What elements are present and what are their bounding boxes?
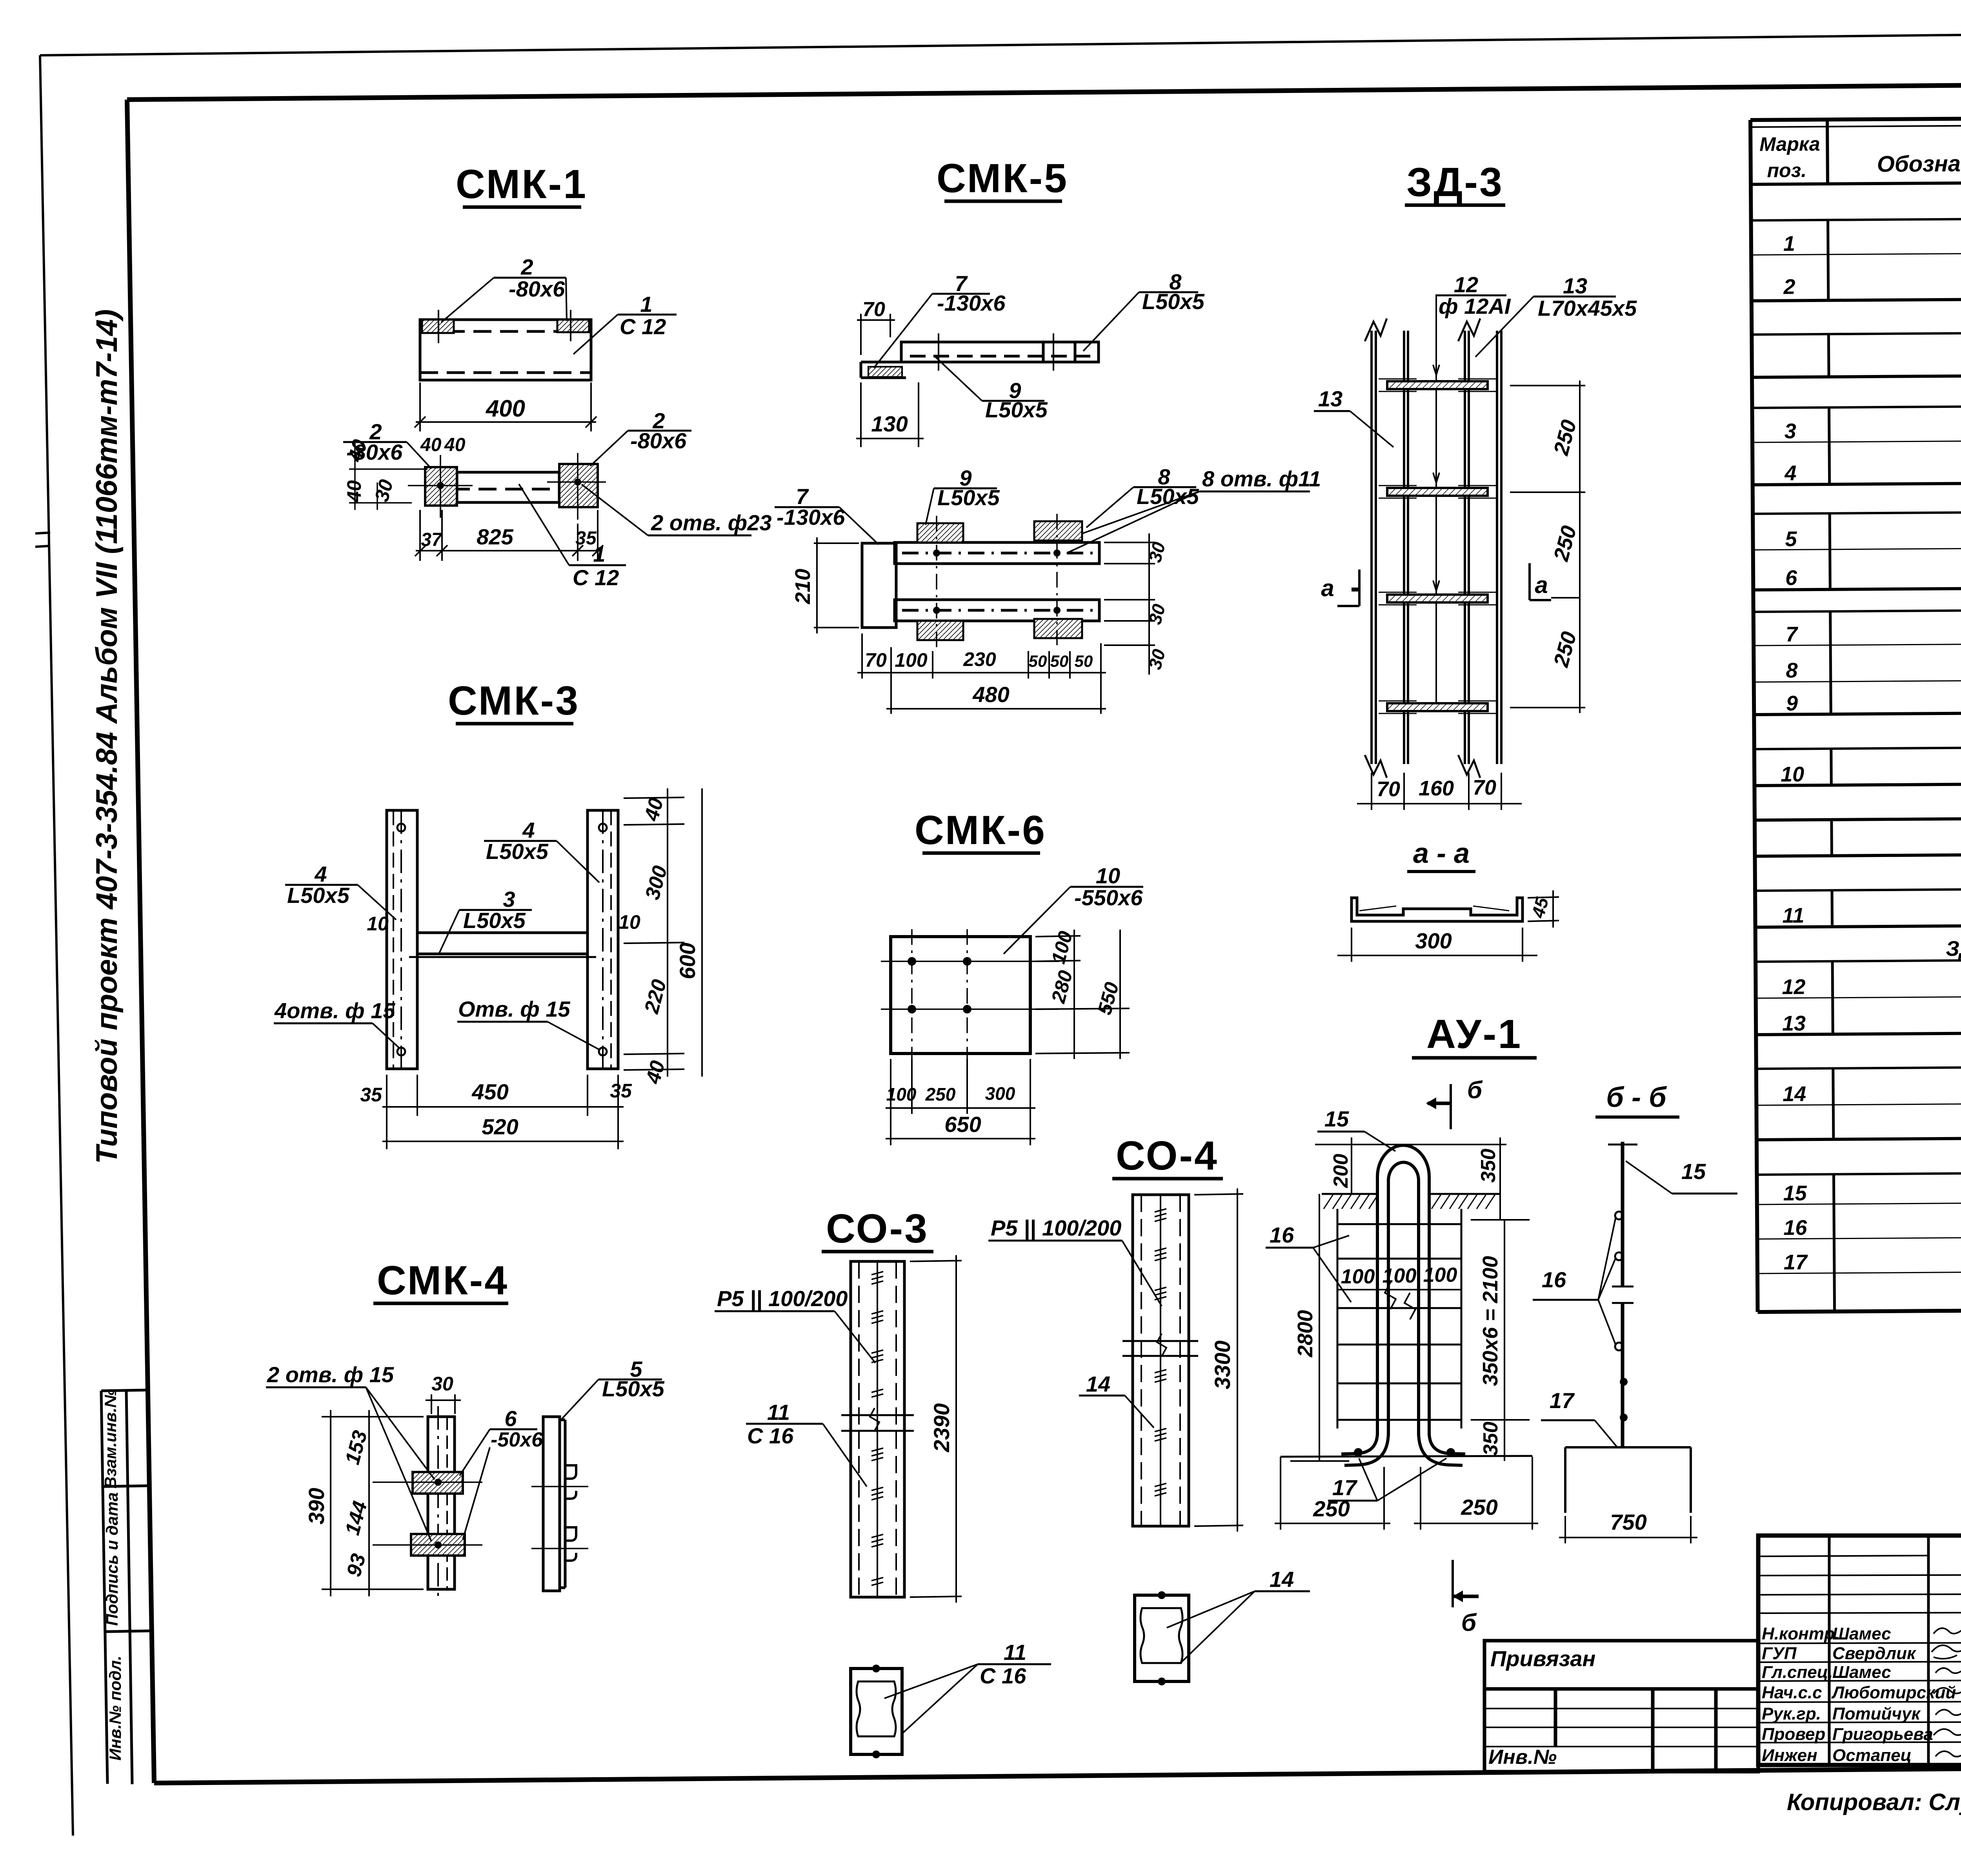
svg-text:Подпись и дата: Подпись и дата bbox=[103, 1492, 121, 1626]
left bottom attribute strip bbox=[101, 1390, 151, 1784]
svg-text:3300: 3300 bbox=[1210, 1341, 1235, 1390]
СМК-3 left angle post bbox=[387, 810, 417, 1069]
svg-text:Григорьева: Григорьева bbox=[1832, 1725, 1933, 1744]
svg-text:СМК-5: СМК-5 bbox=[937, 156, 1068, 201]
signature rows bbox=[1758, 1556, 1961, 1743]
rebar cross ticks bbox=[1155, 1209, 1166, 1496]
svg-text:1: 1 bbox=[1783, 232, 1795, 255]
column verticals through data bands bbox=[1828, 216, 1961, 1312]
dim 300 (а-а) bbox=[1337, 928, 1537, 962]
gusset plates 80x6 on top view bbox=[422, 320, 454, 333]
svg-text:2390: 2390 bbox=[929, 1403, 954, 1453]
signature columns bbox=[1829, 1536, 1961, 1765]
svg-text:230: 230 bbox=[963, 648, 996, 670]
rung end welds bbox=[1379, 379, 1496, 713]
СО-3 cross section bbox=[851, 1669, 902, 1754]
break mark bbox=[1122, 1334, 1198, 1356]
svg-text:поз.: поз. bbox=[1767, 159, 1806, 182]
svg-text:300: 300 bbox=[1415, 928, 1452, 953]
bottom dims 100 250 300 bbox=[886, 1059, 1035, 1145]
rebar cross ticks bbox=[871, 1272, 883, 1585]
svg-text:4: 4 bbox=[1784, 461, 1796, 485]
svg-text:10: 10 bbox=[1096, 863, 1120, 888]
svg-text:16: 16 bbox=[1783, 1216, 1807, 1239]
svg-text:14: 14 bbox=[1783, 1082, 1806, 1106]
svg-text:Провер: Провер bbox=[1762, 1725, 1825, 1744]
svg-text:L50х5: L50х5 bbox=[937, 485, 1000, 510]
svg-text:3: 3 bbox=[1785, 419, 1796, 443]
center rebar line bbox=[1435, 295, 1437, 702]
signature squiggles bbox=[1932, 1625, 1961, 1757]
registration dashes on outer border bbox=[35, 533, 50, 533]
svg-text:СМК-4: СМК-4 bbox=[377, 1258, 509, 1303]
svg-text:12: 12 bbox=[1454, 272, 1478, 297]
svg-text:ЗД-3(масса на 1п.м.): ЗД-3(масса на 1п.м.) bbox=[1946, 936, 1961, 961]
svg-text:100: 100 bbox=[1423, 1264, 1457, 1286]
dim 400 bbox=[415, 382, 597, 431]
svg-text:С 16: С 16 bbox=[747, 1423, 794, 1448]
svg-text:СМК-3: СМК-3 bbox=[448, 678, 580, 724]
overall dim 600 bbox=[701, 788, 703, 1077]
svg-text:15: 15 bbox=[1324, 1106, 1349, 1131]
svg-text:Р5 || 100/200: Р5 || 100/200 bbox=[717, 1286, 848, 1311]
bolt axes bbox=[937, 514, 1057, 647]
section mark б (top) bbox=[1426, 1084, 1451, 1129]
svg-text:50: 50 bbox=[1029, 652, 1047, 670]
СМК-1 front view bar bbox=[425, 472, 598, 502]
svg-text:100: 100 bbox=[1341, 1265, 1375, 1288]
svg-text:7: 7 bbox=[1786, 622, 1799, 646]
svg-text:-80х6: -80х6 bbox=[630, 428, 687, 453]
svg-text:40: 40 bbox=[420, 435, 442, 455]
svg-text:Р5 || 100/200: Р5 || 100/200 bbox=[991, 1215, 1121, 1240]
svg-text:35: 35 bbox=[575, 528, 597, 549]
svg-text:L50х5: L50х5 bbox=[985, 397, 1048, 422]
svg-text:250: 250 bbox=[1461, 1495, 1497, 1519]
svg-text:350: 350 bbox=[1479, 1422, 1502, 1456]
two plates 50x6 bbox=[413, 1472, 463, 1494]
right dim chain 40 300 220 40 bbox=[624, 788, 684, 1077]
svg-text:250: 250 bbox=[925, 1084, 956, 1104]
bottom dims 70 160 70 bbox=[1357, 773, 1522, 810]
anchor U-bolt ф36 bbox=[1341, 1145, 1465, 1465]
svg-text:17: 17 bbox=[1550, 1388, 1575, 1413]
svg-text:Свердлик: Свердлик bbox=[1832, 1644, 1917, 1663]
dim 30 (top) bbox=[426, 1394, 461, 1414]
svg-text:480: 480 bbox=[972, 682, 1009, 707]
break mark bbox=[841, 1408, 914, 1431]
svg-text:13: 13 bbox=[1318, 386, 1343, 411]
svg-text:35: 35 bbox=[610, 1080, 632, 1102]
svg-text:-130х6: -130х6 bbox=[937, 291, 1006, 315]
svg-text:Инв.№: Инв.№ bbox=[1488, 1746, 1557, 1769]
bottom dims 35 450 35 bbox=[382, 1075, 624, 1149]
svg-text:40: 40 bbox=[444, 435, 466, 455]
svg-text:Н.контр.: Н.контр. bbox=[1762, 1624, 1839, 1643]
svg-text:10: 10 bbox=[367, 913, 389, 935]
svg-text:35: 35 bbox=[360, 1084, 382, 1106]
svg-text:100: 100 bbox=[895, 649, 928, 671]
dims 100 100 100 with break bbox=[1337, 1283, 1461, 1319]
СО-4 column C16 bbox=[1133, 1195, 1189, 1526]
svg-text:11: 11 bbox=[1782, 904, 1804, 927]
bottom anchors ф20 bbox=[1354, 1448, 1363, 1457]
foot level line bbox=[1281, 1456, 1532, 1457]
svg-text:Остапец: Остапец bbox=[1832, 1746, 1912, 1765]
svg-text:Привязан: Привязан bbox=[1490, 1646, 1595, 1671]
svg-text:50: 50 bbox=[1075, 652, 1093, 670]
svg-text:2 отв. ф 15: 2 отв. ф 15 bbox=[267, 1362, 394, 1387]
dim 130 (side view) bbox=[856, 382, 924, 447]
svg-text:L50х5: L50х5 bbox=[287, 883, 350, 908]
top dim line 200 350 bbox=[1315, 1137, 1506, 1220]
svg-text:б: б bbox=[1467, 1077, 1483, 1104]
right dims 100 280 550 bbox=[1035, 930, 1130, 1059]
svg-text:-50х6: -50х6 bbox=[491, 1428, 543, 1451]
svg-text:70: 70 bbox=[1473, 776, 1496, 799]
svg-text:L50х5: L50х5 bbox=[463, 908, 526, 933]
svg-text:12: 12 bbox=[1782, 975, 1805, 999]
svg-text:АУ-1: АУ-1 bbox=[1426, 1012, 1522, 1057]
svg-text:Инжен: Инжен bbox=[1762, 1746, 1817, 1765]
left small dims 40 40 30 bbox=[343, 437, 397, 504]
dims 37 825 35 bbox=[415, 510, 603, 561]
svg-text:Гл.спец.: Гл.спец. bbox=[1762, 1663, 1833, 1682]
svg-text:16: 16 bbox=[1270, 1223, 1294, 1247]
svg-text:15: 15 bbox=[1783, 1181, 1807, 1205]
svg-text:Рук.гр.: Рук.гр. bbox=[1762, 1704, 1821, 1723]
svg-text:210: 210 bbox=[791, 569, 815, 604]
plate hole axes bbox=[408, 453, 606, 520]
svg-text:6: 6 bbox=[1785, 566, 1797, 590]
svg-text:16: 16 bbox=[1542, 1267, 1566, 1292]
svg-text:С 16: С 16 bbox=[980, 1663, 1026, 1688]
svg-text:ГУП: ГУП bbox=[1762, 1644, 1797, 1663]
svg-text:Инв.№ подл.: Инв.№ подл. bbox=[106, 1656, 124, 1760]
svg-text:8 отв. ф11: 8 отв. ф11 bbox=[1202, 466, 1321, 491]
svg-text:а - а: а - а bbox=[1413, 838, 1470, 869]
svg-text:-130х6: -130х6 bbox=[777, 505, 845, 530]
svg-text:13: 13 bbox=[1563, 273, 1587, 298]
а-а section profile bbox=[1352, 898, 1523, 921]
dim 45 (а-а) bbox=[1528, 890, 1559, 928]
svg-text:-80х6: -80х6 bbox=[509, 277, 565, 301]
svg-text:17: 17 bbox=[1784, 1250, 1808, 1274]
svg-text:100: 100 bbox=[1383, 1265, 1417, 1287]
svg-text:L50х5: L50х5 bbox=[486, 839, 549, 864]
front view right plate bbox=[559, 464, 598, 507]
Привязан annex block bbox=[1484, 1641, 1758, 1772]
signature roles/names bbox=[1762, 1624, 1956, 1765]
dim 70 (side view) bbox=[857, 314, 895, 355]
svg-text:6: 6 bbox=[504, 1406, 517, 1431]
svg-text:Потийчук: Потийчук bbox=[1832, 1704, 1921, 1723]
svg-text:30: 30 bbox=[431, 1373, 453, 1395]
section mark а (left) bbox=[1337, 570, 1359, 606]
svg-text:L50х5: L50х5 bbox=[602, 1376, 665, 1401]
svg-text:70: 70 bbox=[862, 298, 885, 321]
svg-text:б: б bbox=[1461, 1609, 1477, 1636]
stringer top break marks bbox=[1365, 318, 1480, 778]
svg-text:11: 11 bbox=[767, 1400, 790, 1425]
section mark а (right) bbox=[1530, 563, 1551, 600]
svg-text:825: 825 bbox=[477, 524, 513, 549]
svg-text:14: 14 bbox=[1086, 1372, 1110, 1396]
ladder rungs bbox=[1387, 381, 1488, 711]
medium line under СО-3 header bbox=[1755, 886, 1961, 891]
svg-text:2: 2 bbox=[520, 255, 533, 279]
svg-text:L50х5: L50х5 bbox=[1142, 289, 1205, 314]
sub-header underlines (medium) bbox=[1751, 216, 1961, 1175]
dim 2390 bbox=[910, 1255, 962, 1603]
svg-text:Отв. ф 15: Отв. ф 15 bbox=[458, 997, 571, 1021]
svg-text:Люботирский: Люботирский bbox=[1831, 1683, 1956, 1702]
svg-text:160: 160 bbox=[1419, 777, 1454, 800]
position numbers bbox=[1777, 232, 1808, 1274]
svg-text:а: а bbox=[1535, 572, 1548, 598]
svg-text:600: 600 bbox=[675, 943, 700, 979]
table header text bbox=[1759, 129, 1961, 182]
section divider lines (thick) bbox=[1752, 296, 1961, 1140]
dims 70 100 230 50 50 50 bbox=[857, 633, 1106, 714]
svg-text:Типовой проект 407-3-354.84: Типовой проект 407-3-354.84 Альбом VII (… bbox=[90, 309, 124, 1164]
holes bbox=[908, 957, 916, 966]
dims 390 153 144 93 bbox=[322, 1410, 424, 1596]
СМК-1 channel C12 top view bbox=[420, 320, 591, 380]
svg-text:ф 12АІ: ф 12АІ bbox=[1439, 294, 1511, 318]
hole axes bbox=[881, 929, 1059, 1063]
svg-text:2: 2 bbox=[1783, 275, 1795, 298]
thin row separator lines bbox=[1751, 251, 1961, 1274]
СМК-6 base plate 550x6 bbox=[891, 937, 1030, 1054]
б-б crossbars (circles) bbox=[1615, 1212, 1623, 1219]
svg-text:L70х45х5: L70х45х5 bbox=[1538, 296, 1637, 320]
svg-text:Копировал: Слуцкая: Копировал: Слуцкая bbox=[1787, 1789, 1961, 1815]
svg-text:С 12: С 12 bbox=[620, 314, 666, 339]
svg-text:400: 400 bbox=[486, 395, 525, 422]
svg-text:650: 650 bbox=[944, 1112, 981, 1137]
svg-text:350х6 = 2100: 350х6 = 2100 bbox=[1479, 1256, 1502, 1386]
svg-text:130: 130 bbox=[871, 411, 908, 436]
ground line with hatching bbox=[1322, 1193, 1500, 1195]
overall dim 650 bbox=[886, 1138, 1035, 1139]
svg-text:750: 750 bbox=[1610, 1510, 1646, 1534]
svg-text:14: 14 bbox=[1270, 1567, 1294, 1592]
svg-text:-550х6: -550х6 bbox=[1074, 885, 1143, 910]
svg-text:ЗД-3: ЗД-3 bbox=[1406, 160, 1504, 205]
svg-text:100: 100 bbox=[886, 1084, 917, 1104]
table header doubled top line bbox=[1750, 122, 1961, 127]
svg-text:4отв. ф 15: 4отв. ф 15 bbox=[274, 998, 395, 1023]
СМК-4 side view plate bbox=[543, 1417, 565, 1591]
svg-text:Обозначение: Обозначение bbox=[1877, 151, 1961, 177]
svg-text:5: 5 bbox=[1785, 527, 1797, 551]
svg-text:70: 70 bbox=[1377, 777, 1400, 801]
bottom dims 250 250 bbox=[1275, 1457, 1538, 1530]
dim 3300 bbox=[1194, 1188, 1243, 1532]
bolt-hole plates bbox=[917, 523, 963, 542]
right small dims 30 30 30 bbox=[1104, 533, 1155, 675]
sub-header names bbox=[1941, 194, 1961, 1174]
svg-text:200: 200 bbox=[1330, 1154, 1352, 1188]
overall dim 520 bbox=[382, 1141, 624, 1142]
front view left plate bbox=[425, 467, 457, 506]
svg-text:СО-4: СО-4 bbox=[1116, 1133, 1219, 1179]
dim 750 bbox=[1559, 1516, 1697, 1543]
svg-text:50: 50 bbox=[1050, 652, 1069, 670]
СМК-3 cross angle bbox=[409, 933, 596, 957]
ladder stringers bbox=[1372, 331, 1501, 764]
svg-text:13: 13 bbox=[1782, 1012, 1806, 1035]
svg-text:9: 9 bbox=[1786, 691, 1798, 715]
section mark б (bottom) bbox=[1453, 1560, 1479, 1607]
svg-text:15: 15 bbox=[1681, 1159, 1706, 1184]
side view angle bumps bbox=[565, 1465, 576, 1561]
svg-text:Нач.с.с: Нач.с.с bbox=[1762, 1683, 1822, 1702]
svg-text:37: 37 bbox=[421, 530, 443, 550]
table outer border bbox=[1750, 115, 1961, 1312]
СО-4 cross section bbox=[1135, 1595, 1189, 1681]
svg-text:350: 350 bbox=[1477, 1149, 1500, 1183]
svg-text:250: 250 bbox=[1313, 1496, 1350, 1521]
post holes bbox=[397, 824, 405, 832]
svg-text:10: 10 bbox=[618, 911, 640, 933]
dim 480 bbox=[886, 708, 1106, 710]
svg-text:390: 390 bbox=[304, 1488, 329, 1524]
СМК-5 plan view: two angle bars bbox=[862, 542, 1099, 628]
svg-text:40: 40 bbox=[343, 480, 365, 502]
svg-text:Марка: Марка bbox=[1759, 133, 1820, 155]
svg-text:а: а bbox=[1321, 575, 1334, 601]
svg-text:СМК-1: СМК-1 bbox=[456, 162, 588, 207]
svg-text:Шамес: Шамес bbox=[1832, 1663, 1891, 1682]
svg-text:СМК-6: СМК-6 bbox=[915, 808, 1046, 853]
dim 350x6=2100 bbox=[1471, 1220, 1530, 1461]
СМК-5 side view bar bbox=[861, 342, 1099, 378]
svg-text:520: 520 bbox=[482, 1114, 518, 1139]
dim 2800 bbox=[1290, 1194, 1349, 1461]
СО-3 column C16 bbox=[851, 1261, 904, 1597]
svg-text:8: 8 bbox=[1786, 659, 1797, 682]
б-б rod bbox=[1621, 1142, 1624, 1447]
dim 210 (plan left) bbox=[814, 537, 859, 633]
svg-text:СО-3: СО-3 bbox=[826, 1206, 929, 1252]
svg-text:1: 1 bbox=[640, 292, 652, 317]
svg-text:300: 300 bbox=[985, 1083, 1015, 1104]
svg-text:10: 10 bbox=[1781, 762, 1804, 786]
б-б footing bbox=[1565, 1447, 1691, 1513]
svg-text:С 12: С 12 bbox=[573, 565, 619, 590]
svg-text:Взам.инв.№: Взам.инв.№ bbox=[101, 1389, 120, 1488]
table header grid bbox=[1750, 115, 1961, 184]
svg-text:450: 450 bbox=[471, 1079, 508, 1104]
СМК-3 right angle post bbox=[588, 810, 618, 1069]
СМК-4 front view angle post bbox=[428, 1417, 455, 1589]
svg-text:2800: 2800 bbox=[1293, 1310, 1317, 1357]
svg-text:11: 11 bbox=[1004, 1640, 1026, 1665]
title block outer bbox=[1758, 1536, 1961, 1765]
svg-text:70: 70 bbox=[865, 649, 887, 671]
svg-text:2 отв. ф23: 2 отв. ф23 bbox=[651, 510, 771, 535]
dim chain 250 x3 bbox=[1510, 380, 1585, 713]
svg-text:Шамес: Шамес bbox=[1832, 1624, 1891, 1643]
rebar cage bbox=[1337, 1209, 1461, 1428]
svg-text:б - б: б - б bbox=[1606, 1082, 1667, 1113]
